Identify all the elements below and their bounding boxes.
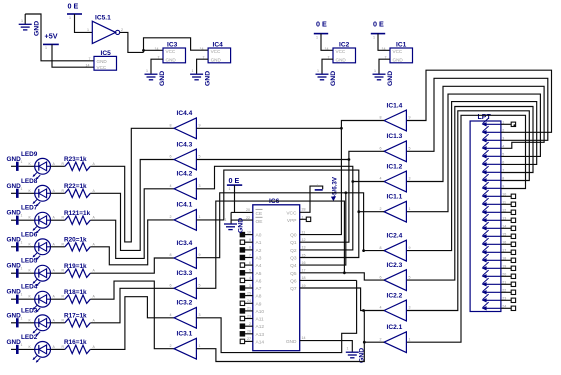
svg-text:4: 4 [249, 276, 251, 280]
pin 7 LPT [482, 166, 505, 174]
svg-text:LED9: LED9 [21, 151, 38, 158]
buffer IC4.3 [174, 149, 196, 170]
pin A7 IC6 [240, 284, 261, 292]
svg-text:5: 5 [199, 284, 201, 288]
wire CE/OE to ground [230, 212, 232, 223]
svg-text:1: 1 [21, 160, 23, 164]
wire LED4 to R18 [51, 298, 65, 300]
svg-text:5: 5 [409, 147, 411, 151]
svg-text:21: 21 [247, 307, 251, 311]
svg-text:27: 27 [247, 337, 251, 341]
buffer IC1.4 [384, 110, 406, 131]
svg-text:Q0: Q0 [290, 233, 297, 239]
svg-text:9: 9 [409, 246, 411, 250]
pin GND IC6 [286, 336, 306, 345]
svg-text:5: 5 [199, 155, 201, 159]
svg-text:Q3: Q3 [290, 256, 297, 262]
pin 22 LPT [482, 286, 507, 294]
wire IC1 pin7 to ground [379, 59, 390, 74]
svg-text:VCC: VCC [97, 65, 107, 70]
pin 24 LPT [482, 302, 507, 310]
svg-text:VCC: VCC [393, 49, 403, 54]
svg-text:A10: A10 [256, 309, 265, 315]
svg-text:IC1.4: IC1.4 [387, 102, 403, 109]
LED LED9 [29, 158, 56, 179]
ground terminal GND (row LED8) [7, 183, 23, 198]
junction net D2 [351, 180, 354, 183]
svg-text:GND: GND [7, 210, 22, 217]
pin 3 LPT [482, 134, 505, 142]
terminal square LPT pin 14 [511, 226, 515, 230]
pin A12 IC6 [240, 322, 264, 330]
terminal square LPT pin 15 [511, 234, 515, 238]
svg-text:14: 14 [382, 47, 386, 51]
svg-text:9: 9 [199, 124, 201, 128]
svg-text:LED2: LED2 [21, 334, 38, 341]
svg-text:GND: GND [7, 236, 22, 243]
svg-text:Q7: Q7 [290, 286, 297, 292]
svg-text:A2: A2 [256, 248, 262, 254]
LED LED6 [29, 239, 56, 260]
svg-text:1: 1 [347, 347, 349, 351]
terminal square LPT pin 1 [511, 122, 515, 126]
svg-text:13: 13 [302, 246, 306, 250]
inverter IC5.1 [92, 21, 119, 43]
svg-text:10: 10 [247, 230, 251, 234]
wire gnd to LED5 [19, 272, 35, 274]
IC IC1 (power box) [390, 48, 413, 63]
svg-text:LED5: LED5 [21, 258, 38, 265]
svg-text:A7: A7 [256, 286, 262, 292]
wire LPT pin 14 stub [501, 227, 511, 229]
terminal square LPT pin 12 [511, 210, 515, 214]
pin VPP IC6 [287, 215, 304, 224]
svg-text:2: 2 [170, 344, 172, 348]
svg-text:R19=1k: R19=1k [64, 263, 87, 270]
buffer IC3.1 [174, 338, 196, 359]
svg-text:1: 1 [374, 69, 376, 73]
wire net D5: IC3.3 - over chip - Q5 - IC2.3 [196, 201, 344, 288]
pin 10 LPT [482, 190, 507, 198]
wire net D2: IC4.2 - Q2 [196, 166, 352, 250]
svg-text:GND: GND [7, 183, 22, 190]
junction net D4 IC2.4 [362, 249, 365, 252]
ground terminal GND (row LED4) [7, 289, 23, 304]
pin 17 LPT [482, 246, 507, 254]
junction net D7 IC2.1 [363, 341, 366, 344]
LED LED3 [29, 315, 56, 336]
wire IC4 pin7 to ground [197, 59, 209, 74]
svg-text:17: 17 [302, 269, 306, 273]
svg-text:9: 9 [199, 253, 201, 257]
wire LPT pin 24 stub [501, 307, 511, 309]
wire gnd to LED7 [19, 219, 35, 221]
junction net D4 [344, 191, 347, 194]
svg-text:LED8: LED8 [21, 178, 38, 185]
svg-text:IC4.3: IC4.3 [177, 141, 193, 148]
wire Q6 stub [300, 279, 357, 281]
wire LPT pin 19 stub [501, 267, 511, 269]
svg-text:VCC: VCC [336, 49, 346, 54]
svg-text:VCC: VCC [286, 210, 297, 216]
wire IC1.2 input from net D2 [353, 181, 384, 183]
wire gnd to LED3 [19, 322, 35, 324]
svg-text:19: 19 [302, 284, 306, 288]
buffer IC2.4 [384, 240, 406, 261]
svg-text:IC3.1: IC3.1 [177, 331, 193, 338]
buffer IC2.1 [384, 332, 406, 353]
pin Q7 IC6 [290, 284, 305, 292]
svg-text:IC3.4: IC3.4 [177, 240, 193, 247]
resistor R19 [62, 269, 96, 278]
svg-text:14: 14 [155, 47, 159, 51]
terminal square LPT pin 18 [511, 258, 515, 262]
ground terminal GND (row LED5) [7, 263, 23, 278]
wire LED9 to IC4.4 output (U-turn) [90, 128, 174, 242]
svg-text:5: 5 [249, 269, 251, 273]
connector LPT box [470, 121, 501, 312]
svg-text:1: 1 [409, 207, 411, 211]
svg-text:1: 1 [45, 46, 47, 50]
wire IC6 GND pin to ground [300, 341, 353, 352]
svg-text:9: 9 [409, 116, 411, 120]
power flag +5V [43, 32, 59, 51]
svg-text:6: 6 [380, 275, 382, 279]
svg-text:IC4.4: IC4.4 [177, 110, 193, 117]
svg-text:IC1.2: IC1.2 [387, 163, 403, 170]
wire IC4.4 input [196, 127, 341, 129]
svg-text:1: 1 [192, 69, 194, 73]
svg-text:IC4.1: IC4.1 [177, 202, 193, 209]
terminal square VPP [306, 217, 310, 221]
pin 14 LPT [482, 222, 507, 230]
wire LPT pin 11 stub [501, 203, 511, 205]
svg-text:0 E: 0 E [373, 20, 384, 29]
svg-text:1: 1 [317, 69, 319, 73]
resistor R16 [62, 345, 96, 354]
buffer IC1.1 [384, 201, 406, 222]
terminal square LPT pin 22 [511, 290, 515, 294]
svg-text:1: 1 [199, 344, 201, 348]
svg-text:IC4: IC4 [213, 42, 224, 49]
svg-text:9: 9 [249, 238, 251, 242]
pin A10 IC6 [240, 307, 264, 315]
svg-text:1: 1 [21, 240, 23, 244]
wire net Q7 - IC2.2 [300, 288, 384, 311]
svg-text:1: 1 [316, 36, 318, 40]
wire LPT pin 22 stub [501, 291, 511, 293]
power flag 0E (IC1) [371, 20, 385, 40]
resistor R23 [62, 162, 96, 171]
svg-text:IC2: IC2 [339, 42, 350, 49]
svg-text:3: 3 [409, 306, 411, 310]
svg-text:6: 6 [249, 261, 251, 265]
svg-text:1: 1 [317, 184, 319, 188]
buffer IC4.1 [174, 210, 196, 231]
wire LPT pin 3 to IC1.3 input [407, 78, 548, 151]
pin 11 LPT [482, 198, 506, 206]
svg-text:A1: A1 [256, 240, 262, 246]
pin A1 IC6 [240, 238, 261, 246]
pin A6 IC6 [240, 276, 261, 284]
svg-text:1: 1 [69, 16, 71, 20]
svg-text:GND: GND [211, 57, 222, 62]
resistor R18 [62, 295, 96, 304]
svg-text:IC1: IC1 [396, 42, 407, 49]
svg-text:25: 25 [247, 291, 251, 295]
wire LED2 to R16 [51, 348, 65, 350]
wire LPT pin 16 stub [501, 243, 511, 245]
IC IC4 (power box) [208, 48, 231, 63]
wire Q5 stub to IC2.3 [300, 273, 384, 280]
pin 2 LPT [482, 126, 505, 134]
wire LED5 to R19 [51, 272, 65, 274]
wire VCC to +5/6.3V flag [300, 186, 323, 212]
power flag 0E (IC5.1 input) [67, 2, 82, 21]
ground symbol GND (top-left) [19, 14, 32, 30]
svg-text:11: 11 [302, 230, 306, 234]
svg-text:8: 8 [502, 177, 504, 181]
svg-text:IC4.2: IC4.2 [177, 171, 193, 178]
pin VCC IC6 [286, 208, 305, 217]
wire net D1: Q1 - IC1.3 [300, 151, 384, 242]
buffer IC1.3 [384, 141, 406, 162]
svg-text:R22=1k: R22=1k [64, 183, 87, 190]
buffer IC4.4 [174, 118, 196, 139]
wire 0E to CE [234, 185, 236, 212]
wire LED8 to R22 [51, 192, 65, 194]
svg-text:1: 1 [229, 187, 231, 191]
svg-text:8: 8 [380, 116, 382, 120]
ground terminal GND (row LED2) [7, 339, 23, 354]
wire OE IC6 [231, 219, 253, 221]
ground symbol GND (IC3) [145, 69, 158, 80]
wire LPT pin 4 to IC1.2 input [407, 86, 544, 181]
wire IC4.3 input [196, 159, 349, 161]
svg-text:4: 4 [170, 313, 172, 317]
svg-text:6: 6 [170, 284, 172, 288]
wire to IC3 pin14 [144, 49, 164, 51]
svg-text:OE: OE [256, 219, 263, 225]
ground terminal GND (row LED9) [7, 156, 23, 171]
wire LPT pin 9 to IC2.1 input [407, 115, 526, 342]
terminal square LPT pin 13 [511, 218, 515, 222]
svg-text:A3: A3 [256, 256, 262, 262]
svg-text:IC5.1: IC5.1 [95, 15, 111, 22]
LED LED4 [29, 291, 56, 312]
svg-text:GND: GND [7, 339, 22, 346]
pin 15 LPT [482, 230, 507, 238]
svg-text:LED7: LED7 [21, 205, 38, 212]
svg-text:1: 1 [21, 267, 23, 271]
svg-text:8: 8 [170, 124, 172, 128]
junction net D3 [357, 210, 360, 213]
svg-text:GND: GND [7, 312, 22, 319]
svg-text:2: 2 [380, 207, 382, 211]
pin 20 LPT [482, 270, 507, 278]
wire LPT pin 23 stub [501, 299, 511, 301]
svg-text:IC3: IC3 [167, 42, 178, 49]
svg-text:GND: GND [205, 71, 212, 86]
LED LED7 [29, 212, 56, 233]
buffer IC2.2 [384, 300, 406, 321]
wire gnd to LED8 [19, 192, 35, 194]
wire LPT pin 1 stub [501, 123, 511, 125]
wire LED9 to R23 [51, 165, 65, 167]
ground symbol GND (IC6) [346, 347, 359, 358]
wire gnd to LED9 [19, 165, 35, 167]
wire +5V to IC5 pin14 [52, 44, 94, 67]
IC IC5 (power box) [94, 56, 117, 70]
svg-text:4: 4 [380, 177, 382, 181]
svg-text:GND: GND [330, 71, 337, 86]
svg-text:1: 1 [409, 337, 411, 341]
pin 19 LPT [482, 262, 507, 270]
svg-text:R16=1k: R16=1k [64, 339, 87, 346]
ground symbol GND (CE/OE) [224, 218, 237, 230]
wire IC3 pin7 to ground [151, 59, 163, 74]
svg-text:9: 9 [502, 185, 504, 189]
svg-text:1: 1 [146, 69, 148, 73]
svg-text:Q1: Q1 [290, 240, 297, 246]
svg-text:0 E: 0 E [316, 20, 327, 29]
wire LED3 to R17 [51, 322, 65, 324]
wire LED3 to IC3.3 output [90, 288, 174, 323]
pin Q1 IC6 [290, 238, 305, 246]
svg-text:4: 4 [170, 184, 172, 188]
IC U6 EPROM box [253, 205, 300, 351]
buffer IC1.2 [384, 171, 406, 192]
wire gnd to LED4 [19, 298, 35, 300]
svg-text:1: 1 [199, 215, 201, 219]
svg-text:LED4: LED4 [21, 284, 38, 291]
wire 0E to IC1 pin14 [378, 34, 390, 51]
wire LED6 to R20 [51, 246, 65, 248]
terminal square LPT pin 21 [511, 282, 515, 286]
svg-text:IC3.3: IC3.3 [177, 270, 193, 277]
buffer IC4.2 [174, 178, 196, 199]
power flag +5/6.3V [315, 184, 323, 190]
wire net D7: IC3.1 - under chip - IC2.1 [196, 342, 364, 361]
pin A2 IC6 [240, 246, 261, 254]
svg-text:R17=1k: R17=1k [64, 313, 87, 320]
svg-text:IC5: IC5 [101, 50, 112, 57]
ground symbol GND (IC1) [373, 69, 386, 80]
junction net D1 [348, 158, 351, 161]
wire LED8 to IC4.3 output (U-turn) [90, 160, 174, 251]
pin Q0 IC6 [290, 230, 305, 238]
ground symbol GND (IC4) [190, 69, 203, 80]
pin 21 LPT [482, 278, 507, 286]
terminal square LPT pin 20 [511, 274, 515, 278]
wire LPT pin 18 stub [501, 259, 511, 261]
IC IC2 (power box) [333, 48, 356, 63]
pin 8 LPT [482, 174, 505, 182]
wire LPT pin 2 to IC1.4 input [407, 70, 552, 132]
svg-text:4: 4 [380, 306, 382, 310]
pin A9 IC6 [240, 299, 261, 307]
wire net D3: IC4.1 - Q3 [196, 170, 358, 257]
svg-text:A4: A4 [256, 263, 262, 269]
svg-text:A8: A8 [256, 294, 262, 300]
pin A14 IC6 [240, 337, 264, 345]
svg-text:3: 3 [249, 284, 251, 288]
svg-text:8: 8 [170, 253, 172, 257]
wire LPT pin 8 to IC2.2 input [407, 111, 529, 311]
wire LED5 to IC3.4 output [90, 258, 174, 273]
junction net D0 [340, 127, 343, 130]
svg-text:R23=1k: R23=1k [64, 156, 87, 163]
svg-text:VPP: VPP [287, 218, 297, 224]
svg-text:VCC: VCC [211, 49, 221, 54]
svg-text:5: 5 [409, 275, 411, 279]
svg-text:14: 14 [86, 63, 90, 67]
LED LED2 [29, 342, 56, 363]
arrow +5/6.3V onto net [331, 197, 336, 202]
svg-text:18: 18 [302, 276, 306, 280]
pin 1 LPT [482, 118, 505, 126]
wire net D4: IC3.4 - over chip - IC2.4 [196, 193, 384, 258]
svg-text:IC2.4: IC2.4 [387, 232, 403, 239]
svg-text:2: 2 [170, 215, 172, 219]
svg-text:GND: GND [238, 218, 245, 233]
wire LPT pin 10 stub [501, 195, 511, 197]
svg-text:+5/6.3V: +5/6.3V [332, 176, 339, 198]
wire net D0: Q0 - IC1.4 [300, 121, 384, 235]
svg-text:14: 14 [302, 336, 306, 340]
svg-text:14: 14 [325, 47, 329, 51]
pin A11 IC6 [240, 314, 264, 322]
wire IC1.1 input from net D3 [359, 211, 384, 213]
pin 9 LPT [482, 182, 505, 190]
terminal square LPT pin 24 [511, 306, 515, 310]
buffer IC3.4 [174, 248, 196, 269]
svg-text:+5V: +5V [45, 32, 58, 41]
svg-text:1: 1 [21, 187, 23, 191]
svg-text:7: 7 [502, 169, 504, 173]
svg-text:1: 1 [21, 19, 23, 23]
svg-text:22: 22 [246, 216, 250, 220]
svg-text:1: 1 [21, 293, 23, 297]
svg-text:3: 3 [199, 184, 201, 188]
svg-text:1: 1 [21, 214, 23, 218]
wire CE IC6 [231, 211, 253, 213]
resistor R17 [62, 318, 96, 327]
terminal square LPT pin 19 [511, 266, 515, 270]
wire IC2.2 row to IC2.1 [364, 311, 384, 343]
wire LPT pin 12 stub [501, 211, 511, 213]
wire LPT pin 13 stub [501, 219, 511, 221]
LED LED5 [29, 265, 56, 286]
terminal square LPT pin 11 [511, 202, 515, 206]
svg-text:A9: A9 [256, 301, 262, 307]
wire LED7 to R121 [51, 219, 65, 221]
svg-text:GND: GND [166, 57, 177, 62]
svg-text:GND: GND [159, 71, 166, 86]
ground symbol GND (IC2) [316, 69, 329, 80]
ground terminal GND (row LED7) [7, 210, 23, 225]
svg-text:8: 8 [380, 246, 382, 250]
svg-text:Q4: Q4 [290, 263, 297, 269]
terminal square LPT pin 17 [511, 250, 515, 254]
svg-text:GND: GND [336, 57, 347, 62]
svg-text:Q6: Q6 [290, 278, 297, 284]
svg-text:6: 6 [380, 147, 382, 151]
svg-text:12: 12 [302, 238, 306, 242]
resistor R20 [62, 242, 96, 251]
power flag 0E (IC6 CE/OE) [227, 176, 242, 191]
pin Q5 IC6 [290, 269, 305, 277]
